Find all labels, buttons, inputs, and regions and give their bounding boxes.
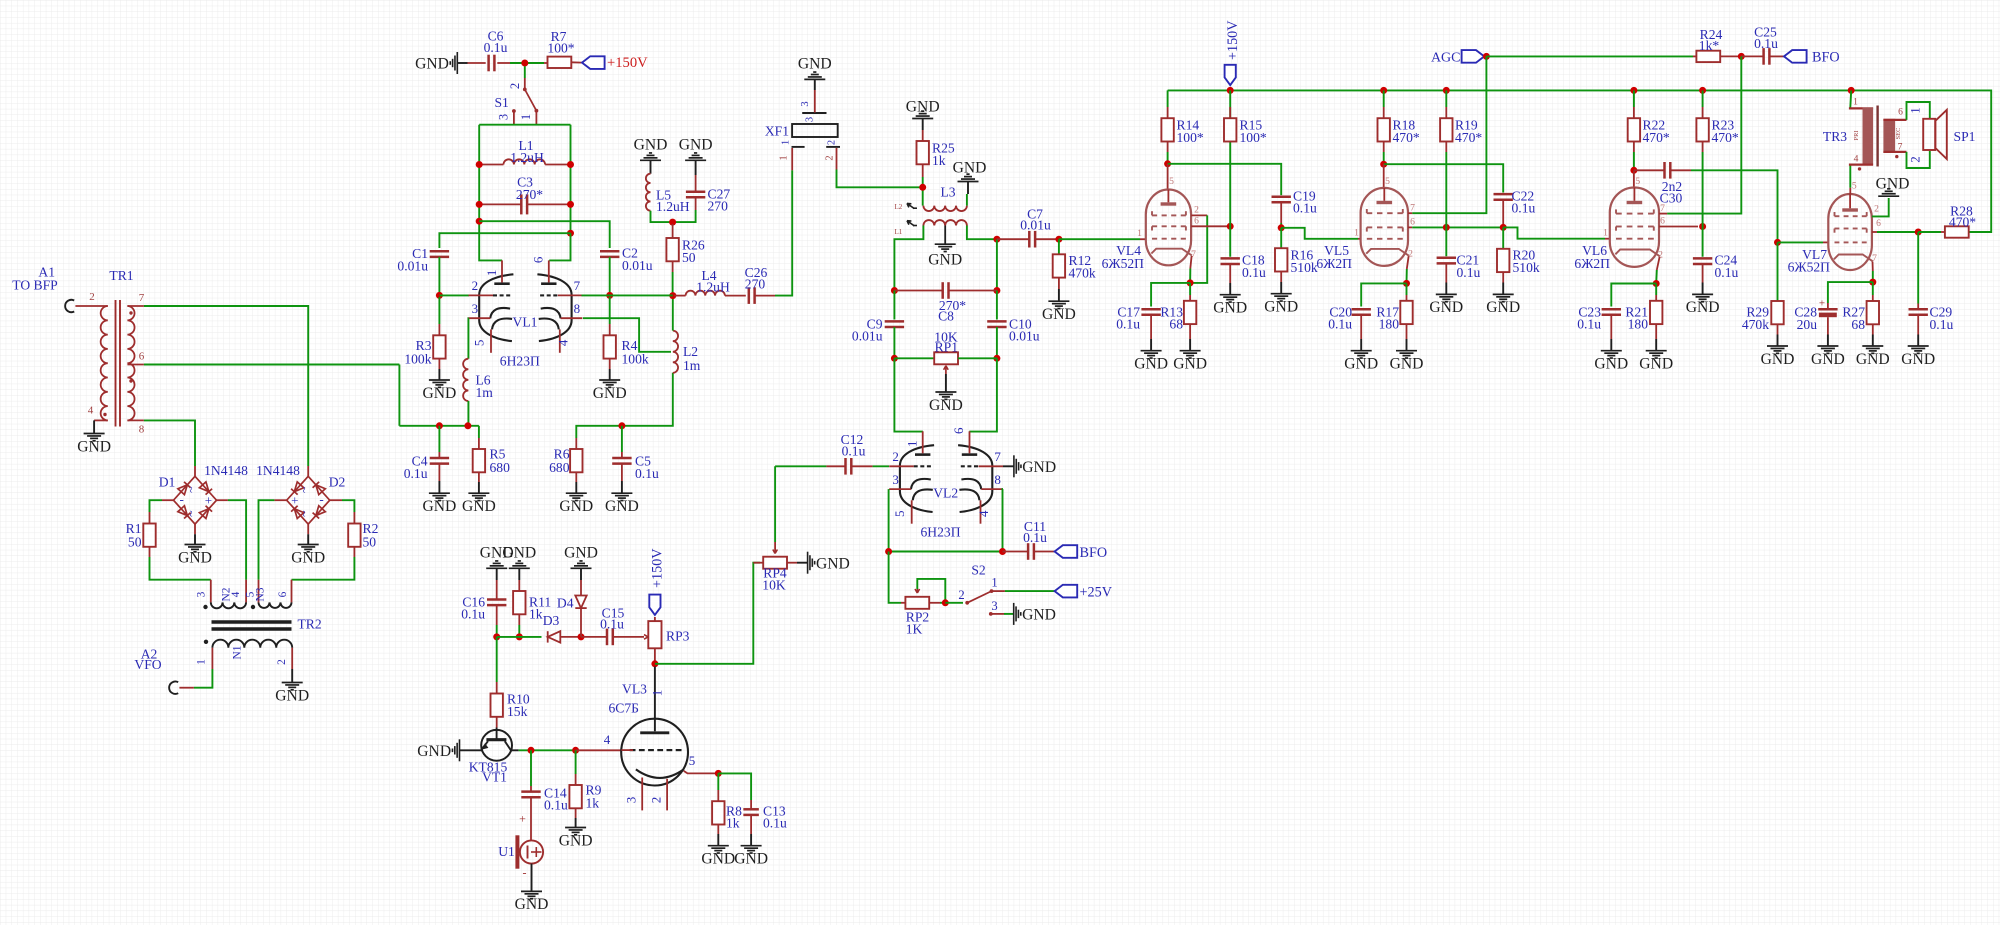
junction node AGC — [1483, 53, 1490, 60]
svg-text:GND: GND — [1173, 356, 1207, 373]
junction node RP3/VL3 pin1 — [651, 660, 658, 667]
svg-text:GND: GND — [605, 498, 639, 515]
svg-text:2: 2 — [1909, 156, 1923, 162]
wire D2 to GND — [307, 534, 309, 544]
svg-text:4: 4 — [88, 405, 94, 417]
wire C9 top lead — [893, 291, 895, 320]
capacitor C28 20u polarized — [1818, 308, 1837, 311]
junction node rail R15 — [1227, 87, 1234, 94]
wire R29 to GND — [1777, 335, 1779, 347]
wire R13 to GND — [1189, 339, 1191, 351]
ground above VL7 pin2 — [1878, 189, 1899, 196]
resistor R26 bottom lead — [672, 261, 674, 272]
wire U1 to GND — [531, 864, 533, 892]
ground below C5 — [611, 493, 632, 500]
wire C28 to GND — [1827, 335, 1829, 347]
svg-text:10K: 10K — [762, 578, 786, 593]
wire node to C19 — [1168, 164, 1282, 195]
tube VL1 6N23P — [469, 256, 583, 369]
svg-text:~: ~ — [184, 510, 198, 517]
ground above R11 — [509, 561, 530, 568]
wire R16 top — [1280, 228, 1282, 248]
svg-text:180: 180 — [1379, 317, 1400, 332]
tube VL3 6S7B — [621, 719, 688, 786]
resistor R16 bottom lead — [1280, 272, 1282, 283]
svg-text:GND: GND — [1429, 299, 1463, 316]
ground below C17 — [1141, 351, 1162, 358]
wire R21 top — [1655, 284, 1657, 296]
wire GND to C27 — [695, 160, 697, 175]
transformer TR1 core — [115, 300, 117, 427]
ground below RP1 — [935, 392, 956, 399]
svg-text:RP1: RP1 — [935, 339, 958, 354]
wire cathode row to C20 — [1361, 283, 1406, 306]
wire R6 to GND — [575, 482, 577, 493]
resistor R17 top lead — [1406, 295, 1408, 301]
resistor R23 bottom lead — [1702, 142, 1704, 153]
resistor R3 bottom lead — [438, 359, 440, 369]
svg-text:U1: U1 — [498, 844, 515, 859]
svg-text:GND: GND — [415, 56, 449, 73]
ground flag GND right of RP4 — [808, 552, 815, 574]
ground flag GND left of C6 — [450, 52, 457, 74]
svg-text:4: 4 — [1854, 154, 1859, 165]
capacitor C12 right lead — [851, 465, 872, 467]
capacitor C25 — [1754, 25, 1778, 65]
svg-text:+: + — [519, 812, 526, 826]
wire lead to R7 — [544, 62, 548, 64]
wire C12 to VL2 pin2 — [873, 465, 889, 467]
svg-text:1.2uH: 1.2uH — [696, 280, 730, 295]
wire R17 top — [1406, 283, 1408, 295]
resistor R16 — [1275, 248, 1318, 276]
capacitor C13 bottom lead — [750, 815, 752, 834]
wire RP2 wiper loop — [917, 579, 945, 600]
wire row to C5 — [621, 426, 623, 452]
diode D3 right lead — [560, 636, 581, 638]
wire R21 to GND — [1655, 339, 1657, 351]
transformer TR3 phase dot primary — [1858, 167, 1861, 170]
junction node R28/C29 — [1915, 229, 1922, 236]
wire C19 to node — [1280, 223, 1282, 228]
svg-text:8: 8 — [139, 424, 145, 436]
transformer TR3 primary winding — [1863, 108, 1874, 166]
ground below R21 — [1646, 351, 1667, 358]
wire AGC line — [1486, 55, 1693, 57]
resistor R11 — [513, 591, 551, 622]
ground above L5 — [640, 153, 661, 160]
resistor R23 — [1696, 118, 1738, 146]
wire pin6 row to C21 — [1445, 227, 1447, 256]
svg-text:270*: 270* — [516, 187, 543, 202]
svg-text:GND: GND — [634, 137, 668, 154]
wire node to R28 — [1918, 231, 1941, 233]
tube VL5 pin7 lead — [1408, 212, 1412, 214]
transformer TR3 pin6 ledge — [1883, 119, 1906, 121]
ground below U1 — [521, 891, 542, 898]
potentiometer RP2 left lead — [901, 602, 905, 604]
svg-text:GND: GND — [1390, 356, 1424, 373]
ground flag GND right of VL2 — [1014, 455, 1021, 477]
transformer TR1 pin7 lead — [127, 305, 143, 307]
switch S2 arm — [967, 591, 991, 603]
diode bridge D2 — [287, 476, 330, 524]
svg-text:6: 6 — [139, 351, 145, 363]
svg-text:VT1: VT1 — [482, 770, 507, 785]
svg-text:VL1: VL1 — [513, 315, 538, 330]
wire C29 top — [1917, 232, 1919, 304]
svg-text:-: - — [523, 866, 527, 880]
svg-text:GND: GND — [1811, 351, 1845, 368]
capacitor C2 — [600, 246, 653, 274]
ground above XF1 — [804, 72, 825, 79]
resistor R5 — [473, 447, 510, 475]
wire row to R10 — [496, 637, 498, 682]
capacitor C11 right lead — [1034, 551, 1055, 553]
power flag +150V (top left) — [582, 56, 605, 69]
svg-text:1: 1 — [991, 576, 997, 590]
transformer TR2 phase dot N2 — [203, 605, 207, 609]
junction node tank-C1 row — [567, 230, 574, 237]
capacitor C5 top lead — [621, 452, 623, 458]
ground below R27 — [1862, 346, 1883, 353]
junction node rail R22 — [1630, 87, 1637, 94]
ground below R3 — [429, 380, 450, 387]
resistor R10 — [491, 692, 530, 720]
svg-text:1N4148: 1N4148 — [204, 463, 248, 478]
svg-text:3: 3 — [892, 472, 899, 487]
ground flag GND right of S2 — [1014, 603, 1021, 625]
svg-text:GND: GND — [1022, 607, 1056, 624]
switch S2 contact pin1 — [990, 589, 994, 593]
diode D3 — [548, 631, 561, 642]
resistor R3 — [404, 335, 445, 366]
wire R5 to GND — [478, 482, 480, 493]
transformer TR3 phase dot secondary — [1895, 155, 1898, 158]
svg-text:5: 5 — [1852, 181, 1857, 192]
tube VL4 pin5 lead — [1167, 164, 1169, 190]
diode bridge D1 bottom lead — [194, 524, 196, 534]
wire R20 top — [1502, 227, 1504, 248]
junction node R18/VL5 plate — [1380, 161, 1387, 168]
capacitor C4 — [404, 453, 449, 481]
wire cathode row right — [576, 373, 673, 438]
svg-text:PRI: PRI — [1853, 131, 1860, 141]
capacitor C20 bottom lead — [1360, 315, 1362, 339]
resistor R5 bottom lead — [478, 472, 480, 482]
wire to VL3 pin4 — [576, 749, 622, 751]
junction node VL4 cathode — [1187, 279, 1194, 286]
wire C23 to GND — [1610, 339, 1612, 351]
wire C12 branch to RP4 — [774, 466, 776, 542]
svg-text:3: 3 — [800, 101, 811, 106]
wire C20 to GND — [1360, 339, 1362, 351]
svg-text:7: 7 — [1410, 203, 1415, 214]
capacitor C23 bottom lead — [1610, 315, 1612, 339]
svg-text:~: ~ — [297, 486, 311, 493]
capacitor C12 — [841, 432, 866, 474]
wire VL4 pin7 down — [1189, 269, 1191, 283]
wire lead to A2 port — [179, 687, 194, 689]
wire TR2 pin1 to A2 — [194, 669, 213, 688]
diode D4 — [575, 596, 586, 609]
tube VL7 6Zh52P — [1788, 181, 1881, 275]
wire GND to R25 — [922, 119, 924, 131]
wire tank right to pin6 — [549, 233, 570, 260]
potentiometer RP4 — [762, 557, 787, 593]
tube VL6 pin6 lead — [1659, 226, 1698, 228]
resistor R1 bottom lead — [149, 547, 151, 557]
switch S1 pin2 stub — [524, 78, 526, 88]
wire row to C4 — [438, 426, 440, 452]
diode bridge D2 right lead — [330, 499, 342, 501]
transformer TR1 pin6 lead — [127, 364, 143, 366]
svg-text:6Ж2П: 6Ж2П — [1574, 256, 1610, 271]
junction node C6/R7/S1 — [521, 60, 528, 67]
svg-text:1: 1 — [1909, 107, 1923, 113]
svg-text:BFO: BFO — [1812, 50, 1840, 66]
svg-text:0.1u: 0.1u — [1715, 265, 1739, 280]
capacitor C3 left lead — [481, 203, 521, 205]
svg-text:510k: 510k — [1513, 260, 1540, 275]
resistor R9 — [569, 783, 601, 811]
wire R27 to GND — [1872, 335, 1874, 347]
inductor L1 left lead — [481, 164, 504, 166]
wire rail to R18 — [1383, 90, 1385, 107]
junction node L1 right — [567, 161, 574, 168]
resistor R2 top lead — [353, 512, 355, 524]
junction node R26/L4 — [669, 292, 676, 299]
transformer TR3 pin1 ledge — [1849, 107, 1873, 109]
resistor R4 top lead — [609, 324, 611, 335]
wire RP4 to GND flag — [797, 562, 808, 564]
svg-text:GND: GND — [1856, 351, 1890, 368]
wire node to S2 pin2 — [945, 602, 963, 604]
svg-text:6H23П: 6H23П — [500, 354, 540, 369]
wire R8 to GND — [717, 834, 719, 846]
svg-text:GND: GND — [423, 385, 457, 402]
potentiometer RP1 — [934, 330, 958, 365]
wire TR1 pin7 to D2 — [144, 306, 308, 466]
svg-text:50: 50 — [128, 535, 142, 550]
switch S1 contact pin1 — [535, 109, 539, 113]
wire C16 to row — [496, 625, 498, 637]
potentiometer RP3 wiper arrow — [644, 635, 648, 640]
wire C13 to GND — [750, 834, 752, 846]
wire AGC to VL5 pin7 — [1412, 56, 1486, 213]
svg-text:1: 1 — [905, 441, 920, 448]
svg-text:2: 2 — [1874, 204, 1879, 215]
junction node rail R18 — [1380, 87, 1387, 94]
tube VL6 pin1 lead — [1605, 238, 1610, 240]
inductor L4 right lead — [725, 295, 746, 297]
ground below C4 — [429, 493, 450, 500]
wire R26 to row — [672, 272, 674, 296]
transformer TR1 secondary — [127, 306, 134, 420]
svg-text:2: 2 — [826, 140, 837, 145]
capacitor C11 left lead — [1003, 551, 1029, 553]
switch S1 pin3 stub — [513, 111, 515, 125]
wire D2 to R2 — [342, 500, 354, 512]
wire L3 bottom right — [967, 226, 995, 240]
svg-text:3: 3 — [805, 117, 816, 122]
svg-text:-: - — [179, 492, 183, 507]
svg-text:0.1u: 0.1u — [1512, 201, 1536, 216]
wire R13 top — [1189, 283, 1191, 295]
wire grid node to VL7 pin1 — [1778, 241, 1824, 243]
wire C2 to grid row — [609, 257, 611, 293]
wire R12 to GND — [1058, 289, 1060, 301]
transformer L3 trimmer arrow top — [907, 203, 914, 208]
svg-text:8: 8 — [574, 301, 581, 316]
svg-text:0.1u: 0.1u — [600, 617, 624, 632]
diode D4 bottom lead — [580, 608, 582, 637]
junction node R8/C13 — [715, 770, 722, 777]
wire R15 rail — [1229, 90, 1231, 256]
svg-text:GND: GND — [462, 498, 496, 515]
wire node to VL5 pin1 — [1281, 228, 1358, 239]
wire R27 top — [1872, 282, 1874, 295]
capacitor C21 bottom lead — [1445, 263, 1447, 282]
svg-text:VL3: VL3 — [622, 682, 647, 697]
wire L6 to cathode row — [467, 401, 469, 426]
resistor R17 bottom lead — [1406, 324, 1408, 339]
svg-text:+150V: +150V — [650, 548, 666, 588]
wire to VL1 pin2 — [439, 294, 469, 296]
junction node C9 top — [891, 287, 898, 294]
wire rail to TR3 pin1 — [1849, 90, 1852, 107]
svg-text:GND: GND — [1686, 299, 1720, 316]
wire TR3 pin4 to VL7 pin5 — [1849, 165, 1851, 188]
potentiometer RP4 wiper lead — [774, 542, 776, 554]
svg-text:SP1: SP1 — [1954, 129, 1976, 144]
wire L5 bottom — [651, 211, 671, 222]
svg-text:N1: N1 — [232, 645, 244, 659]
svg-text:+25V: +25V — [1080, 585, 1113, 601]
svg-text:7: 7 — [1898, 142, 1903, 153]
diode bridge D2 bottom lead — [307, 524, 309, 534]
junction node C22/R20 — [1500, 224, 1507, 231]
junction node C7/R12 — [1055, 236, 1062, 243]
capacitor C7 — [1020, 207, 1051, 248]
svg-text:7: 7 — [1660, 203, 1665, 214]
wire R12 top — [1058, 239, 1060, 254]
svg-text:180: 180 — [1628, 317, 1649, 332]
svg-text:VFO: VFO — [134, 657, 161, 672]
resistor R9 top lead — [575, 774, 577, 785]
capacitor C24 — [1693, 253, 1739, 281]
wire RP1 left — [894, 357, 934, 359]
wire C29 to GND — [1917, 335, 1919, 347]
svg-text:+: + — [291, 493, 298, 508]
resistor R6 top lead — [575, 438, 577, 449]
wire TR3 pin7 to SP1 — [1907, 151, 1930, 168]
svg-text:0.1u: 0.1u — [1457, 265, 1481, 280]
junction node C4 — [436, 422, 443, 429]
svg-text:GND: GND — [1901, 351, 1935, 368]
svg-text:6: 6 — [1194, 216, 1199, 227]
tube VL4 pin1 lead — [1140, 238, 1146, 240]
svg-text:RP3: RP3 — [666, 629, 690, 644]
svg-text:0.01u: 0.01u — [1020, 218, 1051, 233]
resistor R13 — [1160, 301, 1196, 332]
tube VL7 pin7 stub — [1872, 262, 1874, 272]
resistor R27 bottom lead — [1872, 324, 1874, 334]
resistor R12 — [1053, 253, 1096, 281]
capacitor C30 2n2 — [1660, 162, 1683, 206]
tube VL5 pin5 lead — [1383, 164, 1385, 188]
svg-text:S2: S2 — [971, 563, 986, 578]
resistor R27 — [1842, 301, 1879, 332]
resistor R3 top lead — [438, 324, 440, 335]
wire to C13 — [718, 773, 751, 800]
crystal filter XF1 pin1 stub — [791, 148, 793, 170]
capacitor C13 — [743, 804, 787, 831]
svg-text:1: 1 — [780, 140, 791, 145]
ground below R29 — [1767, 346, 1788, 353]
junction node C5 — [618, 422, 625, 429]
wire tank to C1 — [439, 233, 570, 248]
capacitor C22 bottom lead — [1502, 200, 1504, 224]
svg-text:1k: 1k — [932, 153, 946, 168]
wire C30 to VL7 grid — [1691, 170, 1778, 239]
transformer TR2 pin2 stub — [291, 648, 293, 669]
wire left rail to VL2 pin1 — [894, 358, 923, 431]
svg-text:4: 4 — [976, 510, 991, 517]
svg-text:GND: GND — [701, 851, 735, 868]
wire RP1 wiper to GND — [945, 374, 947, 392]
transformer TR1 primary — [101, 306, 108, 420]
svg-text:6: 6 — [530, 256, 545, 263]
capacitor C26 — [745, 265, 768, 304]
wire S2 to +25V — [1005, 590, 1055, 592]
tube VL6 pin7 lead — [1659, 213, 1667, 215]
junction node R14/VL4 plate — [1164, 160, 1171, 167]
resistor R18 top lead — [1383, 107, 1385, 118]
wire cathode row to C17 — [1151, 283, 1190, 307]
capacitor C7 right lead — [1035, 238, 1056, 240]
svg-text:470*: 470* — [1949, 215, 1976, 230]
svg-text:0.01u: 0.01u — [1009, 329, 1040, 344]
wire VL5 pin2 down — [1406, 269, 1408, 283]
svg-text:470*: 470* — [1455, 130, 1482, 145]
junction node R25/XF1 — [919, 184, 926, 191]
svg-text:5: 5 — [1169, 176, 1174, 187]
svg-text:7: 7 — [139, 292, 145, 304]
diode bridge D1 — [173, 476, 216, 524]
crystal filter XF1 pin1 bar — [792, 146, 805, 148]
resistor R2 — [348, 521, 378, 550]
wire R25 to L3 — [922, 177, 924, 206]
capacitor C23 — [1577, 305, 1621, 332]
wire C17 to GND — [1150, 339, 1152, 351]
ground above R25 — [912, 111, 933, 118]
diode bridge D1 top lead — [194, 466, 196, 476]
junction node VL7 grid — [1774, 239, 1781, 246]
svg-text:GND: GND — [291, 549, 325, 566]
wire L2 top — [672, 297, 674, 331]
junction node VL1 pin2 — [436, 292, 443, 299]
svg-text:0.1u: 0.1u — [461, 607, 485, 622]
wire row C16-D3 — [497, 636, 542, 638]
resistor R27 top lead — [1872, 295, 1874, 301]
wire VL2 cathode rail — [889, 489, 1003, 551]
wire rail to RP2 — [889, 552, 901, 603]
capacitor C29 top lead — [1917, 304, 1919, 310]
wire R3 top — [438, 297, 440, 324]
wire cathode row to C28 — [1828, 282, 1873, 303]
transformer TR2 pin6 stub — [291, 580, 293, 603]
